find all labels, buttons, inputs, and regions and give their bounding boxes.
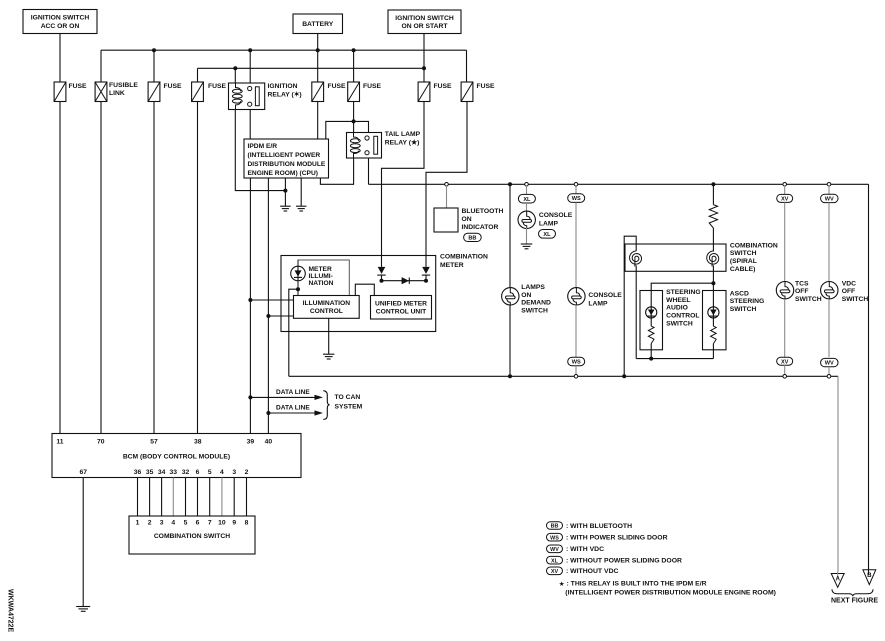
svg-text:11: 11 — [56, 438, 63, 445]
svg-text:WV: WV — [825, 361, 834, 367]
svg-text:TO CAN: TO CAN — [335, 394, 361, 401]
svg-text:B: B — [867, 572, 872, 579]
svg-text:INDICATOR: INDICATOR — [462, 224, 499, 231]
svg-text:SYSTEM: SYSTEM — [335, 403, 363, 410]
svg-text:STEERING: STEERING — [730, 298, 765, 305]
svg-text:40: 40 — [265, 438, 273, 445]
svg-text:WV: WV — [825, 197, 834, 203]
svg-text:4: 4 — [220, 469, 224, 476]
svg-text:XV: XV — [781, 197, 789, 203]
svg-text:CONTROL: CONTROL — [666, 313, 699, 320]
svg-text:FUSE: FUSE — [328, 83, 347, 90]
svg-text:6: 6 — [196, 520, 200, 527]
svg-text:COMBINATION: COMBINATION — [440, 253, 488, 260]
svg-text:CONTROL UNIT: CONTROL UNIT — [376, 309, 427, 316]
svg-text:(INTELLIGENT POWER DISTRIBUTIO: (INTELLIGENT POWER DISTRIBUTION MODULE E… — [565, 590, 776, 597]
svg-text:1: 1 — [136, 520, 140, 527]
svg-text:ENGINE ROOM) (CPU): ENGINE ROOM) (CPU) — [248, 170, 318, 177]
svg-text:XL: XL — [543, 232, 551, 238]
svg-text:ACC OR ON: ACC OR ON — [41, 23, 80, 30]
svg-text:BB: BB — [551, 524, 559, 530]
svg-text:67: 67 — [79, 469, 87, 476]
svg-text:CONTROL: CONTROL — [310, 308, 343, 315]
svg-text:39: 39 — [247, 438, 255, 445]
svg-text:FUSE: FUSE — [69, 83, 88, 90]
svg-text:8: 8 — [245, 520, 249, 527]
svg-text:WKWA4722E: WKWA4722E — [7, 589, 14, 633]
svg-text:XL: XL — [551, 558, 559, 564]
svg-text:IGNITION: IGNITION — [268, 83, 298, 90]
svg-text:: WITH VDC: : WITH VDC — [566, 546, 604, 553]
svg-text:LAMP: LAMP — [588, 301, 608, 308]
svg-text:: WITH POWER SLIDING DOOR: : WITH POWER SLIDING DOOR — [566, 535, 668, 542]
svg-text:7: 7 — [208, 520, 212, 527]
svg-text:57: 57 — [150, 438, 158, 445]
svg-text:COMBINATION SWITCH: COMBINATION SWITCH — [154, 533, 230, 540]
svg-text:TAIL LAMP: TAIL LAMP — [385, 131, 421, 138]
svg-text:SWITCH: SWITCH — [521, 308, 548, 315]
svg-text:METER: METER — [440, 262, 464, 269]
svg-text:10: 10 — [218, 520, 226, 527]
svg-text:: THIS RELAY IS BUILT INTO THE: : THIS RELAY IS BUILT INTO THE IPDM E/R — [567, 581, 707, 588]
svg-text:DISTRIBUTION MODULE: DISTRIBUTION MODULE — [248, 161, 326, 168]
svg-text:TCS: TCS — [795, 280, 809, 287]
svg-text:IPDM E/R: IPDM E/R — [248, 143, 278, 150]
svg-text:★: ★ — [559, 580, 565, 588]
svg-text:ASCD: ASCD — [730, 290, 749, 297]
svg-text:6: 6 — [196, 469, 200, 476]
svg-text:3: 3 — [160, 520, 164, 527]
svg-text:OFF: OFF — [842, 288, 856, 295]
svg-text:BLUETOOTH: BLUETOOTH — [462, 208, 504, 215]
svg-text:5: 5 — [208, 469, 212, 476]
svg-text:DEMAND: DEMAND — [521, 300, 551, 307]
svg-text:VDC: VDC — [842, 280, 856, 287]
svg-text:WS: WS — [572, 196, 581, 202]
svg-text:35: 35 — [146, 469, 154, 476]
svg-text:WS: WS — [550, 535, 559, 541]
svg-text:FUSE: FUSE — [164, 83, 183, 90]
svg-text:XV: XV — [781, 359, 789, 365]
svg-text:XL: XL — [523, 197, 531, 203]
svg-text:DATA LINE: DATA LINE — [276, 389, 310, 396]
svg-text:4: 4 — [171, 520, 175, 527]
svg-text:LAMP: LAMP — [539, 221, 559, 228]
svg-text:AUDIO: AUDIO — [666, 305, 688, 312]
svg-text:3: 3 — [232, 469, 236, 476]
svg-text:BATTERY: BATTERY — [302, 21, 334, 28]
svg-text:METER: METER — [309, 266, 332, 273]
svg-text:36: 36 — [134, 469, 142, 476]
svg-text:ON: ON — [462, 216, 472, 223]
svg-text:CONSOLE: CONSOLE — [588, 292, 622, 299]
svg-text:ON: ON — [521, 292, 531, 299]
svg-text:CONSOLE: CONSOLE — [539, 212, 573, 219]
svg-text:34: 34 — [158, 469, 166, 476]
svg-text:2: 2 — [148, 520, 152, 527]
svg-text:: WITHOUT VDC: : WITHOUT VDC — [566, 568, 619, 575]
svg-text:IGNITION SWITCH: IGNITION SWITCH — [395, 15, 454, 22]
svg-text:A: A — [835, 575, 840, 582]
svg-text:STEERING: STEERING — [666, 289, 701, 296]
svg-text:DATA LINE: DATA LINE — [276, 404, 310, 411]
svg-text:WV: WV — [550, 547, 559, 553]
svg-text:33: 33 — [170, 469, 178, 476]
svg-text:32: 32 — [182, 469, 190, 476]
svg-text:ILLUMI-: ILLUMI- — [309, 273, 333, 280]
svg-text:FUSE: FUSE — [434, 83, 453, 90]
svg-text:: WITH BLUETOOTH: : WITH BLUETOOTH — [566, 523, 632, 530]
svg-text:NATION: NATION — [309, 280, 334, 287]
svg-text:RELAY (✶): RELAY (✶) — [268, 91, 302, 99]
svg-text:LAMPS: LAMPS — [521, 284, 545, 291]
svg-text:BB: BB — [468, 236, 476, 242]
svg-text:UNIFIED METER: UNIFIED METER — [375, 300, 427, 307]
svg-text:FUSE: FUSE — [477, 83, 496, 90]
svg-text:70: 70 — [97, 438, 105, 445]
svg-text:WHEEL: WHEEL — [666, 297, 690, 304]
svg-text:COMBINATION: COMBINATION — [730, 242, 778, 249]
svg-text:5: 5 — [184, 520, 188, 527]
svg-text:SWITCH: SWITCH — [730, 306, 757, 313]
svg-text:BCM (BODY CONTROL MODULE): BCM (BODY CONTROL MODULE) — [123, 454, 230, 461]
svg-text:ON OR START: ON OR START — [402, 23, 449, 30]
svg-text:SWITCH: SWITCH — [795, 296, 822, 303]
svg-text:SWITCH: SWITCH — [730, 250, 757, 257]
svg-text:FUSE: FUSE — [363, 83, 382, 90]
svg-text:FUSIBLE: FUSIBLE — [109, 82, 138, 89]
svg-text:FUSE: FUSE — [208, 83, 227, 90]
svg-text:IGNITION SWITCH: IGNITION SWITCH — [31, 15, 90, 22]
svg-text:38: 38 — [194, 438, 202, 445]
svg-text:OFF: OFF — [795, 288, 809, 295]
svg-text:XV: XV — [551, 569, 559, 575]
svg-text:(SPIRAL: (SPIRAL — [730, 258, 757, 265]
svg-text:(INTELLIGENT POWER: (INTELLIGENT POWER — [248, 152, 321, 159]
svg-text:NEXT FIGURE: NEXT FIGURE — [831, 598, 878, 605]
svg-text:ILLUMINATION: ILLUMINATION — [303, 300, 351, 307]
svg-text:: WITHOUT POWER SLIDING DOOR: : WITHOUT POWER SLIDING DOOR — [566, 558, 682, 565]
svg-text:RELAY (★): RELAY (★) — [385, 138, 420, 146]
svg-text:9: 9 — [232, 520, 236, 527]
svg-text:LINK: LINK — [109, 90, 125, 97]
svg-text:2: 2 — [245, 469, 249, 476]
svg-text:SWITCH: SWITCH — [842, 296, 869, 303]
svg-text:CABLE): CABLE) — [730, 266, 756, 273]
svg-text:SWITCH: SWITCH — [666, 320, 693, 327]
svg-text:WS: WS — [572, 360, 581, 366]
